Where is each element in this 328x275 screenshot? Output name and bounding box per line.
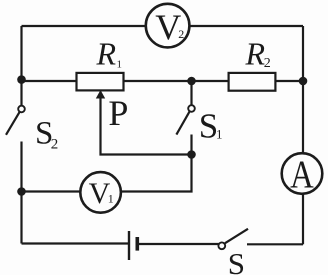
svg-text:P: P xyxy=(108,93,128,133)
svg-text:1: 1 xyxy=(216,126,223,141)
svg-text:2: 2 xyxy=(264,56,271,71)
svg-text:1: 1 xyxy=(108,192,114,206)
svg-text:A: A xyxy=(290,152,314,195)
svg-text:1: 1 xyxy=(117,58,123,70)
svg-text:R: R xyxy=(96,36,117,72)
svg-text:R: R xyxy=(245,36,266,72)
svg-text:2: 2 xyxy=(51,136,59,152)
svg-text:2: 2 xyxy=(178,27,184,41)
svg-text:S: S xyxy=(228,246,245,275)
